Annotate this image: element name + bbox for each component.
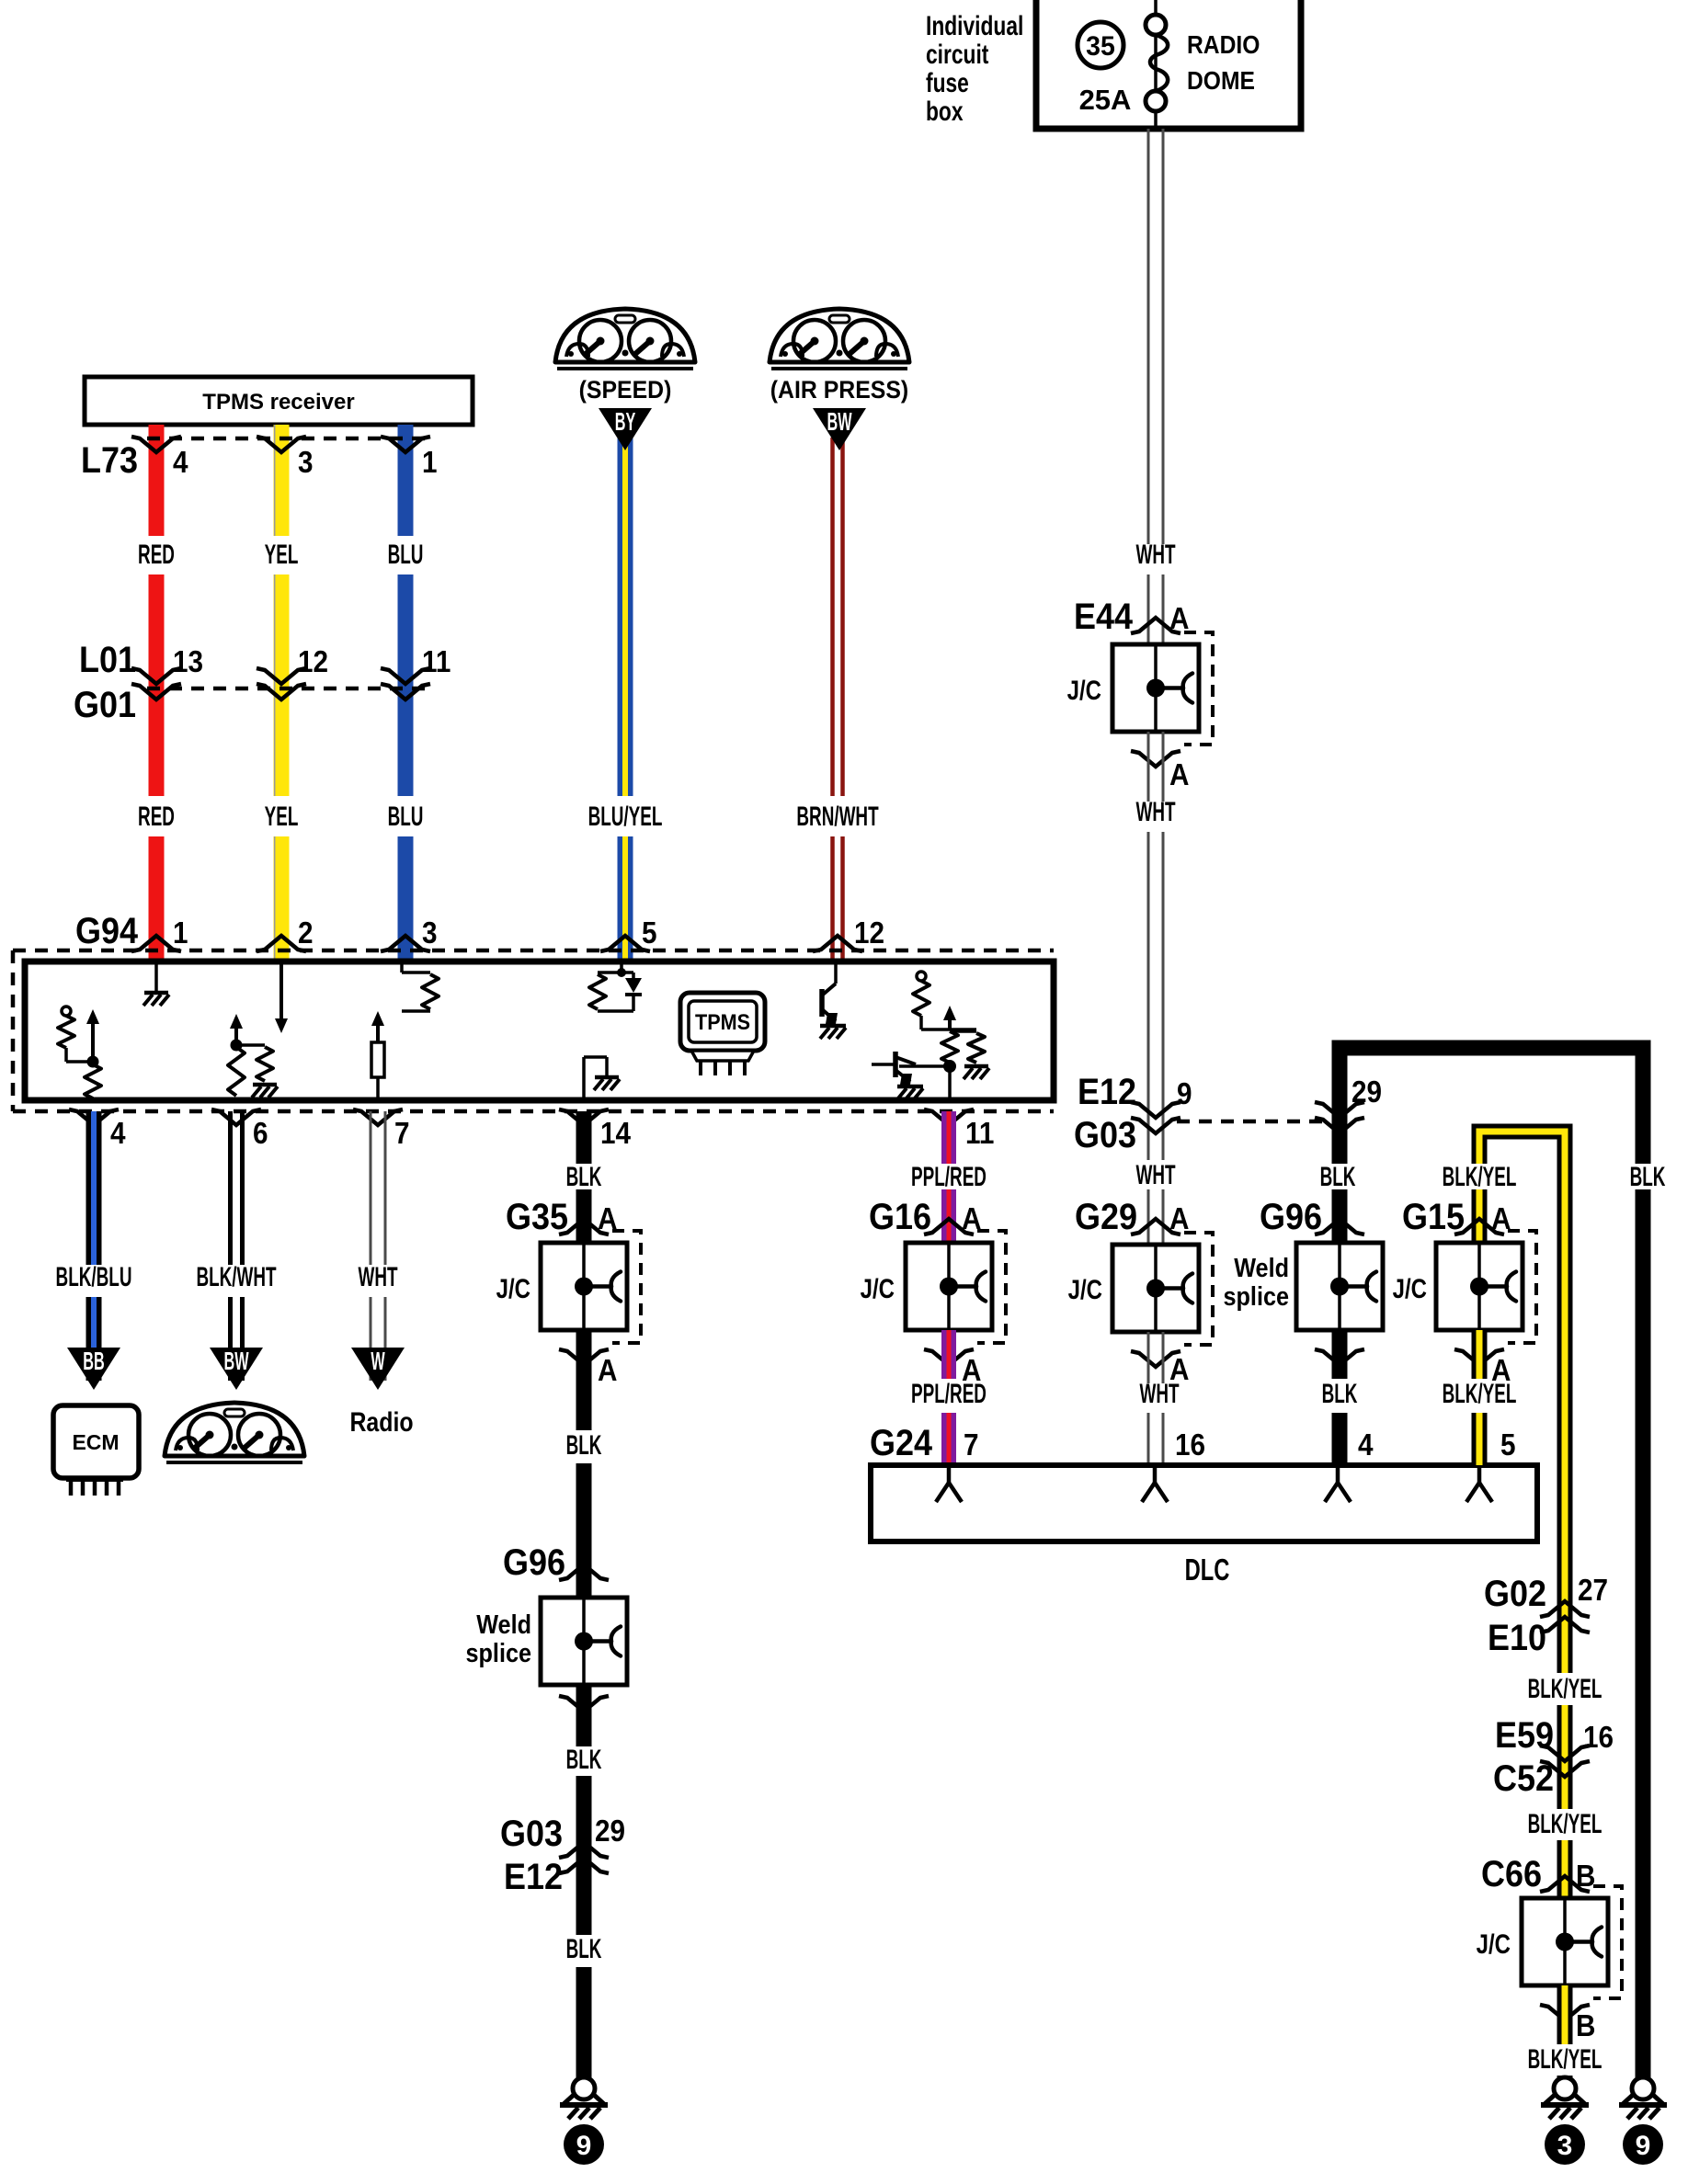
module bottom connector pins <box>69 1109 119 1125</box>
svg-text:BLK: BLK <box>1322 1379 1358 1410</box>
svg-text:E12: E12 <box>504 1857 563 1897</box>
svg-text:WHT: WHT <box>1135 797 1176 828</box>
wire BLK thick L-shape top right <box>1340 1048 1643 1164</box>
svg-text:box: box <box>926 96 964 127</box>
wire WHT G29 to DLC pin 16 <box>1147 1332 1150 1383</box>
svg-text:J/C: J/C <box>1393 1272 1427 1303</box>
svg-text:G29: G29 <box>1075 1197 1137 1237</box>
svg-text:11: 11 <box>965 1117 994 1151</box>
svg-text:9: 9 <box>576 2131 592 2161</box>
svg-text:(AIR PRESS): (AIR PRESS) <box>770 377 908 404</box>
svg-text:J/C: J/C <box>1068 1273 1102 1304</box>
svg-text:WHT: WHT <box>1135 1160 1176 1191</box>
svg-text:WHT: WHT <box>1139 1379 1180 1410</box>
svg-text:A: A <box>1169 758 1189 792</box>
svg-text:G02: G02 <box>1484 1574 1546 1614</box>
svg-text:G94: G94 <box>75 911 138 951</box>
svg-text:G15: G15 <box>1402 1197 1465 1237</box>
svg-text:PPL/RED: PPL/RED <box>911 1379 987 1410</box>
TPMS receiver box <box>85 377 473 425</box>
svg-text:RADIO: RADIO <box>1187 30 1260 60</box>
svg-text:BLK/YEL: BLK/YEL <box>1443 1162 1517 1193</box>
svg-text:PPL/RED: PPL/RED <box>911 1162 987 1193</box>
svg-text:BLK: BLK <box>566 1745 602 1776</box>
svg-text:WHT: WHT <box>358 1262 398 1293</box>
svg-text:E44: E44 <box>1074 597 1133 637</box>
module internals: pin4 group <box>62 1007 71 1016</box>
connector BW <box>813 408 866 450</box>
svg-text:BLK/YEL: BLK/YEL <box>1443 1379 1517 1410</box>
wire YEL pin3 <box>274 425 290 536</box>
module internals: pin1 ground <box>154 961 158 993</box>
wire BLK/YEL U-shape <box>1479 1132 1565 1673</box>
svg-text:E59: E59 <box>1495 1715 1554 1756</box>
ground symbol (BLK/YEL) <box>1554 2077 1576 2099</box>
module internals: pin7 group <box>376 1022 380 1042</box>
ground symbol (middle) <box>573 2077 595 2099</box>
svg-text:29: 29 <box>595 1814 625 1848</box>
svg-text:splice: splice <box>1223 1280 1289 1311</box>
TPMS module dashed outline <box>11 950 16 1111</box>
svg-text:BLK/YEL: BLK/YEL <box>1528 2044 1602 2076</box>
svg-text:BW: BW <box>827 406 851 436</box>
ground number 9 (middle) <box>564 2124 604 2165</box>
svg-text:G16: G16 <box>869 1197 931 1237</box>
svg-text:TPMS receiver: TPMS receiver <box>202 390 354 415</box>
wire BLK/WHT pin6 out <box>228 1111 233 1265</box>
svg-text:YEL: YEL <box>265 802 299 833</box>
wire WHT fuse box to E44 <box>1147 129 1150 544</box>
svg-text:splice: splice <box>465 1637 531 1667</box>
connector pin 29 marks on BLK <box>1315 1102 1364 1118</box>
svg-text:3: 3 <box>1557 2131 1573 2161</box>
svg-text:G03: G03 <box>500 1814 563 1854</box>
svg-text:16: 16 <box>1583 1721 1614 1755</box>
gauge icon (SPEED) <box>555 309 695 369</box>
svg-text:14: 14 <box>600 1117 632 1151</box>
fuse 35 25A <box>1146 15 1166 35</box>
wire RED pin4 <box>149 425 165 536</box>
svg-text:4: 4 <box>173 446 188 480</box>
svg-text:J/C: J/C <box>1477 1928 1511 1959</box>
svg-text:(SPEED): (SPEED) <box>579 377 672 404</box>
svg-text:DOME: DOME <box>1187 66 1255 96</box>
svg-text:11: 11 <box>422 645 451 679</box>
svg-text:B: B <box>1576 2009 1595 2043</box>
svg-text:TPMS: TPMS <box>695 1009 750 1034</box>
connector G94 <box>13 949 1054 953</box>
TPMS module box <box>25 961 1054 1100</box>
svg-text:BY: BY <box>615 406 636 436</box>
svg-text:5: 5 <box>1500 1428 1516 1462</box>
module internals: pin2 arrow <box>279 961 283 1022</box>
connector L01/G01 <box>147 687 425 691</box>
wire PPL/RED G16 to G24 <box>941 1330 956 1379</box>
svg-text:BLK/YEL: BLK/YEL <box>1528 1809 1602 1840</box>
svg-text:L73: L73 <box>81 440 138 481</box>
svg-text:RED: RED <box>138 802 175 833</box>
dashed link to pin 29 <box>1177 1120 1331 1124</box>
module internals: pin11 group <box>917 972 926 981</box>
DLC box <box>871 1465 1537 1541</box>
svg-text:BRN/WHT: BRN/WHT <box>796 802 879 833</box>
wire BLU pin1 <box>398 425 414 536</box>
svg-text:A: A <box>598 1354 617 1388</box>
wire WHT pin7 out <box>370 1111 372 1265</box>
svg-text:2: 2 <box>298 916 314 950</box>
svg-text:G24: G24 <box>870 1423 932 1463</box>
svg-text:13: 13 <box>173 645 203 679</box>
svg-text:BLK: BLK <box>1630 1162 1666 1193</box>
wire BLK/YEL G15 to DLC pin 5 <box>1472 1330 1488 1379</box>
wire BLK/BLU pin4 out <box>86 1111 102 1265</box>
svg-text:BLK/YEL: BLK/YEL <box>1528 1674 1602 1705</box>
svg-text:BLU: BLU <box>388 540 424 571</box>
svg-text:9: 9 <box>1636 2131 1651 2161</box>
svg-text:E10: E10 <box>1488 1618 1546 1658</box>
svg-text:J/C: J/C <box>496 1272 530 1303</box>
svg-text:Radio: Radio <box>349 1406 413 1438</box>
svg-text:C66: C66 <box>1481 1854 1542 1894</box>
wire PPL/RED pin11 out <box>941 1111 956 1164</box>
wire BLK G96 to DLC pin 4 <box>1332 1330 1348 1379</box>
svg-text:29: 29 <box>1352 1075 1382 1109</box>
svg-text:4: 4 <box>110 1117 126 1151</box>
svg-text:RED: RED <box>138 540 175 571</box>
svg-text:12: 12 <box>854 916 884 950</box>
connector W to Radio <box>351 1348 405 1390</box>
svg-text:27: 27 <box>1578 1574 1608 1608</box>
ground number 9 (far right) <box>1623 2124 1663 2165</box>
svg-text:Weld: Weld <box>476 1609 531 1639</box>
wire WHT G03 to G29 <box>1147 1133 1150 1160</box>
svg-text:G35: G35 <box>506 1197 568 1237</box>
svg-text:DLC: DLC <box>1185 1553 1230 1587</box>
svg-text:fuse: fuse <box>926 67 969 98</box>
module internals: pin3 resistor loop <box>400 961 404 973</box>
module internals: pin12 transistor <box>834 961 838 984</box>
svg-text:BLK/BLU: BLK/BLU <box>56 1262 132 1293</box>
svg-text:WHT: WHT <box>1135 540 1176 571</box>
svg-text:7: 7 <box>964 1428 979 1462</box>
svg-text:E12: E12 <box>1078 1072 1136 1112</box>
svg-text:25A: 25A <box>1079 84 1132 116</box>
wire BLK G96 to G03/E12 <box>576 1685 592 1746</box>
svg-text:BLK: BLK <box>566 1162 602 1193</box>
wire BLU/YEL pin5 <box>618 438 633 796</box>
svg-text:L01: L01 <box>79 640 136 680</box>
svg-text:BW: BW <box>223 1346 248 1375</box>
svg-text:7: 7 <box>394 1117 410 1151</box>
wire WHT E44 to E12 <box>1147 732 1150 802</box>
svg-text:YEL: YEL <box>265 540 299 571</box>
svg-text:BLK: BLK <box>566 1430 602 1462</box>
wire BRN/WHT pin12 <box>830 438 835 796</box>
connector BW to cluster <box>210 1348 263 1390</box>
svg-text:BLU: BLU <box>388 802 424 833</box>
wire BLK pin14 out <box>576 1111 592 1164</box>
wire BLK G35 to G96 <box>576 1330 592 1430</box>
svg-text:5: 5 <box>642 916 657 950</box>
ground symbol (far right) <box>1632 2077 1654 2099</box>
svg-text:G01: G01 <box>74 685 136 725</box>
module internals: pin5 resistor+diode <box>620 961 623 973</box>
svg-text:J/C: J/C <box>861 1272 895 1303</box>
module internals: pin6 group <box>234 1025 238 1045</box>
svg-text:16: 16 <box>1175 1428 1205 1462</box>
svg-text:1: 1 <box>422 446 438 480</box>
fuse box: Individual circuit fuse box <box>1036 0 1301 129</box>
svg-text:BB: BB <box>83 1346 104 1375</box>
svg-text:Individual: Individual <box>926 10 1023 41</box>
svg-text:3: 3 <box>422 916 438 950</box>
svg-text:J/C: J/C <box>1067 674 1101 705</box>
connector BY <box>599 408 652 450</box>
svg-text:4: 4 <box>1358 1428 1374 1462</box>
svg-text:G03: G03 <box>1074 1115 1136 1155</box>
svg-text:BLK: BLK <box>566 1934 602 1965</box>
module internals: pin14 ground bracket <box>582 1057 586 1100</box>
svg-text:6: 6 <box>253 1117 268 1151</box>
svg-text:G96: G96 <box>1260 1197 1322 1237</box>
svg-text:C52: C52 <box>1493 1758 1554 1799</box>
svg-text:3: 3 <box>298 446 314 480</box>
connector BB to ECM <box>67 1348 120 1390</box>
svg-text:1: 1 <box>173 916 188 950</box>
svg-text:BLU/YEL: BLU/YEL <box>588 802 663 833</box>
ground number 3 <box>1545 2124 1585 2165</box>
connector L73 <box>147 437 425 441</box>
svg-text:12: 12 <box>298 645 328 679</box>
svg-text:Weld: Weld <box>1234 1252 1289 1282</box>
svg-text:circuit: circuit <box>926 39 988 70</box>
svg-text:W: W <box>371 1346 385 1375</box>
gauge icon (AIR PRESS) <box>770 309 909 369</box>
svg-text:9: 9 <box>1177 1077 1192 1111</box>
wire BLK/YEL C66 to ground 3 <box>1557 1985 1573 2044</box>
svg-text:35: 35 <box>1086 31 1115 62</box>
module internals: TPMS unit icon <box>680 993 765 1051</box>
svg-text:G96: G96 <box>503 1542 565 1583</box>
svg-text:BLK: BLK <box>1320 1162 1356 1193</box>
svg-text:BLK/WHT: BLK/WHT <box>196 1262 277 1293</box>
svg-text:ECM: ECM <box>72 1430 119 1454</box>
ECM box <box>53 1405 139 1478</box>
gauge icon bottom <box>165 1403 304 1462</box>
